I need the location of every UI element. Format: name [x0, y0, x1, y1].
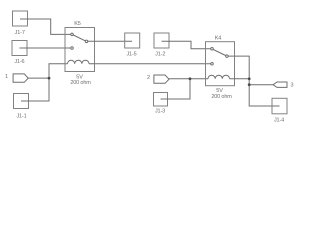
relay K4 box: [206, 36, 235, 86]
connector J1-7: [13, 11, 28, 36]
wire port 2 to K4 coil: [169, 78, 208, 80]
connector J1-4: [272, 98, 287, 123]
K5 common contact: [85, 40, 88, 43]
K5 armature: [73, 35, 85, 41]
K4 common contact: [226, 55, 229, 58]
connector J1-3: [154, 93, 168, 115]
svg-text:J1-2: J1-2: [155, 52, 165, 58]
svg-text:200 ohm: 200 ohm: [70, 80, 91, 86]
wire J1-1 / port 1 to K5 coil (left net): [21, 64, 68, 101]
connector J1-6: [12, 41, 27, 66]
svg-text:1: 1: [5, 74, 8, 80]
junction port2/J1-3 net: [189, 77, 192, 80]
svg-text:K5: K5: [74, 21, 81, 27]
wire port 1 to coil net: [28, 77, 49, 79]
svg-text:3: 3: [291, 83, 294, 89]
K4 NC contact: [211, 48, 214, 51]
svg-text:K4: K4: [215, 36, 222, 42]
connector J1-1: [14, 94, 29, 120]
svg-text:J1-4: J1-4: [274, 117, 284, 123]
svg-text:J1-7: J1-7: [15, 30, 25, 36]
wire K5 coil to K4 NO contact: [89, 63, 211, 65]
wire K5 common to J1-5: [88, 40, 132, 42]
port 3: [273, 82, 293, 89]
junction port3/bus: [248, 83, 251, 86]
svg-text:200 ohm: 200 ohm: [211, 94, 232, 100]
junction port1/coil net: [48, 77, 51, 80]
K4 NO contact: [211, 63, 214, 66]
svg-text:J1-1: J1-1: [16, 114, 26, 120]
K4 coil: [208, 75, 230, 79]
svg-text:2: 2: [147, 75, 150, 81]
svg-text:J1-5: J1-5: [126, 52, 136, 58]
wire K4 coil right to bus: [230, 78, 250, 80]
connector J1-2: [154, 33, 169, 58]
relay K5 box: [65, 21, 95, 71]
connector J1-5: [125, 33, 140, 58]
wire J1-3 to coil net: [161, 79, 191, 99]
svg-text:J1-3: J1-3: [155, 109, 165, 115]
wire bus to port 3: [249, 84, 273, 86]
wire K4 common to right bus: [228, 56, 279, 106]
wire J1-6 to K5 NO contact: [20, 47, 71, 49]
K5 NO contact: [71, 47, 74, 50]
junction coil/bus: [248, 77, 251, 80]
K5 NC contact: [71, 33, 74, 36]
K5 coil: [68, 60, 90, 64]
wire J1-2 to K4 NC contact: [162, 41, 211, 49]
svg-text:J1-6: J1-6: [14, 59, 24, 65]
K4 armature: [213, 50, 225, 56]
wire J1-7 to K5 NC contact: [20, 19, 71, 34]
port 2: [147, 75, 169, 83]
port 1: [5, 74, 28, 82]
